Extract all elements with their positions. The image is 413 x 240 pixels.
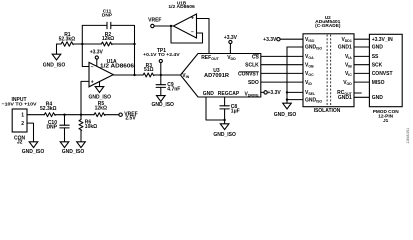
svg-text:12kΩ: 12kΩ — [95, 106, 107, 112]
svg-text:10kΩ: 10kΩ — [85, 124, 97, 130]
svg-text:−: − — [91, 64, 94, 70]
svg-text:2.5V: 2.5V — [125, 116, 136, 122]
svg-text:(C-GRADE): (C-GRADE) — [315, 23, 341, 28]
svg-text:+3.3V: +3.3V — [263, 37, 277, 43]
svg-text:+3.3V_IN: +3.3V_IN — [372, 37, 393, 43]
svg-text:SCLK: SCLK — [245, 63, 259, 69]
svg-text:SDO: SDO — [248, 80, 259, 86]
svg-text:+: + — [91, 80, 94, 86]
svg-text:+3.3V: +3.3V — [90, 50, 104, 56]
svg-text:DNP: DNP — [46, 125, 57, 131]
svg-text:GND1: GND1 — [338, 95, 352, 101]
svg-text:GND_ISO: GND_ISO — [89, 94, 112, 100]
svg-text:GND_ISO: GND_ISO — [43, 62, 66, 68]
svg-text:GND_ISO: GND_ISO — [22, 149, 45, 155]
svg-text:1: 1 — [21, 112, 24, 118]
svg-text:4.7nF: 4.7nF — [167, 87, 180, 93]
svg-text:GND: GND — [203, 91, 215, 97]
svg-text:MISO: MISO — [372, 80, 385, 86]
svg-text:AD7091R: AD7091R — [204, 73, 229, 79]
svg-text:52.3kΩ: 52.3kΩ — [40, 106, 57, 112]
svg-text:REGCAP: REGCAP — [218, 91, 240, 97]
svg-text:CONVST: CONVST — [238, 71, 259, 77]
svg-text:GND_ISO: GND_ISO — [213, 132, 236, 138]
svg-text:+3.3V: +3.3V — [224, 35, 238, 41]
svg-text:CONVST: CONVST — [372, 71, 393, 77]
svg-text:1/2 AD8606: 1/2 AD8606 — [168, 4, 195, 9]
svg-text:ISOLATION: ISOLATION — [314, 108, 341, 114]
svg-text:GND_ISO: GND_ISO — [151, 102, 174, 108]
svg-text:SS: SS — [372, 54, 379, 60]
svg-text:CS: CS — [252, 54, 260, 60]
svg-text:1μF: 1μF — [231, 108, 240, 114]
svg-text:+3.3V: +3.3V — [268, 90, 282, 96]
svg-text:DNP: DNP — [102, 12, 113, 18]
svg-text:11648-001: 11648-001 — [406, 128, 410, 144]
svg-text:1/2 AD8606: 1/2 AD8606 — [100, 64, 134, 70]
svg-text:51Ω: 51Ω — [144, 67, 154, 73]
svg-text:GND1: GND1 — [338, 45, 352, 51]
svg-text:SCK: SCK — [372, 62, 383, 68]
svg-text:J1: J1 — [383, 118, 389, 124]
svg-text:−: − — [191, 29, 194, 35]
svg-text:+0.1V TO +2.4V: +0.1V TO +2.4V — [143, 52, 181, 57]
svg-text:GND: GND — [372, 45, 384, 51]
svg-text:+: + — [191, 16, 194, 22]
svg-text:VREF: VREF — [148, 17, 161, 23]
svg-text:2: 2 — [21, 121, 24, 127]
svg-text:12kΩ: 12kΩ — [102, 36, 114, 42]
svg-text:J2: J2 — [17, 140, 23, 146]
svg-text:GND_ISO: GND_ISO — [62, 149, 85, 155]
svg-text:52.3kΩ: 52.3kΩ — [59, 37, 76, 43]
svg-text:GND: GND — [372, 95, 384, 101]
svg-text:GND_ISO: GND_ISO — [274, 112, 297, 118]
svg-text:−10V TO +10V: −10V TO +10V — [2, 101, 38, 106]
